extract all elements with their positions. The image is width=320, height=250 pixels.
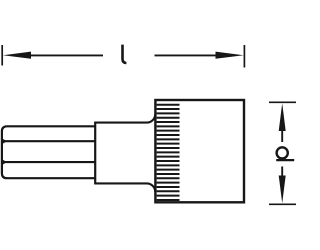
dimension l: left arrowhead — [3, 52, 31, 59]
dimension d: down arrowhead — [279, 176, 286, 204]
hex bit: chamfer flare lower — [3, 160, 7, 165]
label l — [123, 45, 127, 63]
dimension d: lower line segment — [281, 167, 283, 178]
shank: bottom edge with fillet — [95, 183, 156, 191]
shank: top edge with fillet — [95, 114, 156, 122]
hex bit: chamfer flare upper — [3, 139, 7, 144]
label d (rotated): ascender stroke — [276, 159, 294, 161]
dimension d: bottom extension tick — [269, 203, 296, 205]
knurl lines — [157, 105, 180, 200]
dimension l: left line segment — [30, 54, 103, 56]
hex bit: lower edge line — [3, 161, 95, 163]
dimension l: right extension tick — [243, 45, 245, 68]
socket body — [155, 100, 244, 202]
dimension l: right arrowhead — [216, 52, 244, 59]
hex bit: outline — [2, 126, 95, 178]
dimension d: top extension tick — [269, 101, 296, 103]
dimension l: right line segment — [155, 54, 217, 56]
dimension l: left extension tick — [1, 45, 3, 66]
hex bit: upper edge line — [3, 140, 95, 142]
dimension d: up arrowhead — [279, 103, 286, 131]
shank: left shoulder edge — [94, 122, 96, 185]
label d (rotated): bowl — [277, 147, 288, 158]
dimension d: upper line segment — [281, 130, 283, 142]
